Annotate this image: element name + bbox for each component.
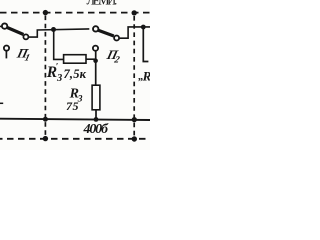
svg-text:7,5к: 7,5к	[64, 67, 87, 81]
svg-text:400б: 400б	[83, 122, 110, 137]
svg-text:R: R	[142, 68, 150, 83]
svg-text:3: 3	[56, 73, 62, 84]
svg-text:ЛЕМИ:: ЛЕМИ:	[87, 0, 118, 7]
svg-text:75: 75	[66, 99, 79, 113]
